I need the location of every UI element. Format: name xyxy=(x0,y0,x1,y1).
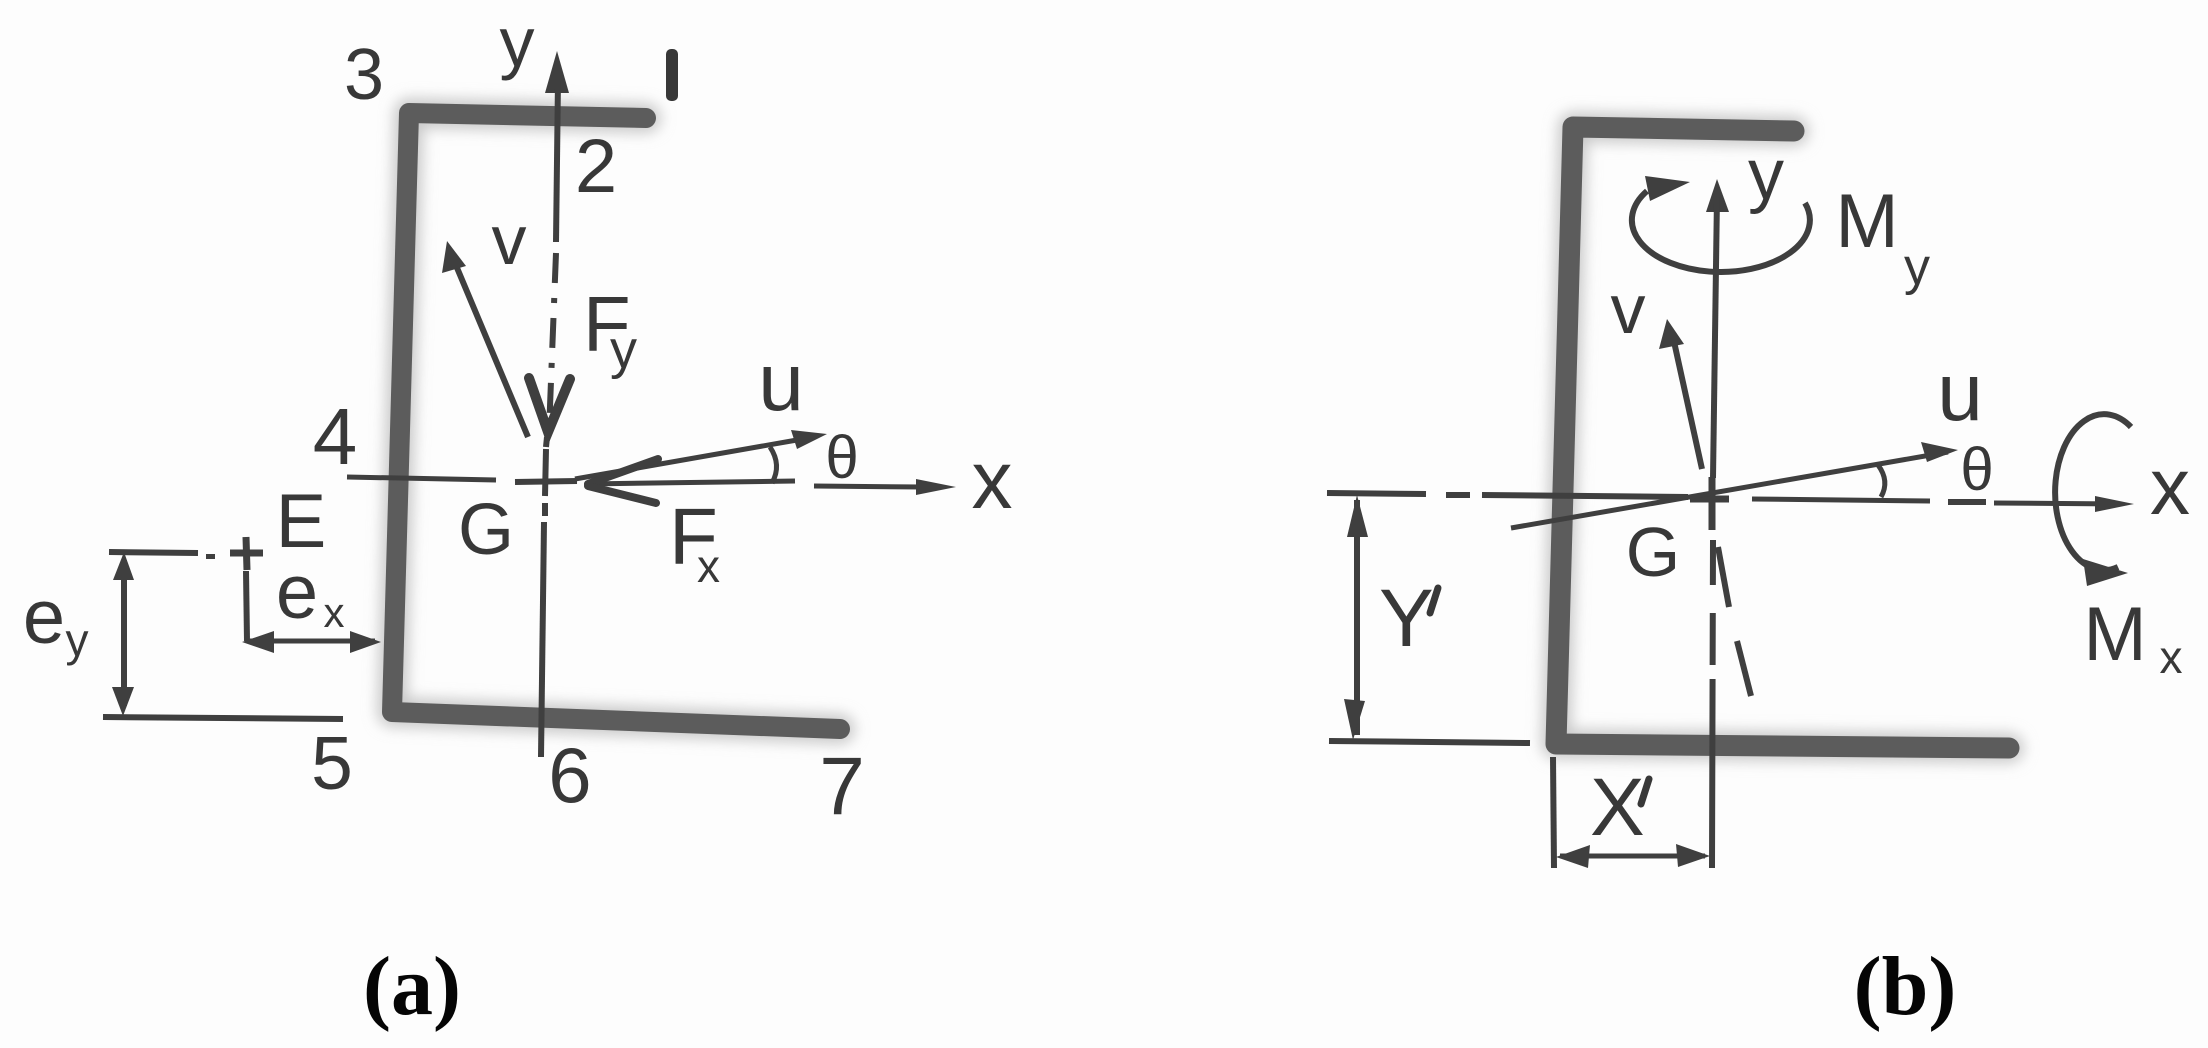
label 1 xyxy=(666,49,678,101)
u-axis arrowhead xyxy=(791,430,827,449)
svg-text:x: x xyxy=(972,435,1013,526)
svg-text:x: x xyxy=(2160,631,2183,683)
svg-text:e: e xyxy=(23,575,65,660)
svg-text:y: y xyxy=(1748,135,1784,215)
scan halo under section (a) xyxy=(392,113,840,729)
X' right arrowhead xyxy=(1676,844,1710,867)
x-axis mid segment / Fx shaft xyxy=(586,481,795,484)
Y' bottom reference line xyxy=(1329,741,1530,743)
y-axis solid shaft xyxy=(556,80,558,242)
node G crosshair xyxy=(545,449,546,496)
svg-text:θ: θ xyxy=(825,424,858,491)
section outline (a): top flange, web, bottom flange xyxy=(392,113,840,729)
ey bottom reference line xyxy=(103,717,343,719)
svg-text:3: 3 xyxy=(344,35,384,115)
ex right arrowhead xyxy=(350,631,381,653)
section outline (b): top flange, web, bottom flange xyxy=(1556,127,2009,748)
ey bottom arrowhead xyxy=(112,687,134,716)
X' dimension line xyxy=(1560,854,1705,859)
svg-text:θ: θ xyxy=(1960,436,1993,503)
svg-text:e: e xyxy=(276,550,318,635)
u-axis arrowhead xyxy=(1921,442,1958,462)
x-axis arrowhead xyxy=(2095,496,2134,512)
svg-text:y: y xyxy=(500,3,535,81)
X' left arrowhead xyxy=(1556,845,1590,868)
svg-text:y: y xyxy=(1904,238,1930,296)
moment My arrowhead xyxy=(1645,176,1690,201)
svg-text:v: v xyxy=(1611,270,1646,348)
angle theta arc xyxy=(770,447,777,483)
moment My ellipse arc xyxy=(1632,191,1810,272)
y-axis arrowhead xyxy=(1706,179,1729,212)
X' left boundary line xyxy=(1553,757,1554,868)
svg-text:Y: Y xyxy=(1379,573,1434,664)
ex leader line below E xyxy=(246,571,247,641)
svg-text:2: 2 xyxy=(575,124,617,209)
scan halo under section (b) xyxy=(1556,127,2009,748)
Y' top arrowhead xyxy=(1347,495,1368,537)
moment Mx arc xyxy=(2055,414,2131,570)
svg-text:G: G xyxy=(458,490,514,570)
y-axis dash-dot segment (Fy shaft) xyxy=(549,253,556,432)
force Fy arrowhead xyxy=(529,378,570,432)
ey top tick line xyxy=(109,552,198,553)
svg-text:5: 5 xyxy=(311,721,353,805)
svg-text:M: M xyxy=(1835,179,1898,264)
svg-text:x: x xyxy=(324,589,345,636)
u-axis shaft xyxy=(575,440,797,479)
svg-text:x: x xyxy=(697,540,720,592)
u-axis line through G xyxy=(1511,452,1948,528)
x-axis arrowhead xyxy=(916,479,956,495)
dot between tick and E xyxy=(206,554,215,559)
Y' bottom arrowhead xyxy=(1344,699,1365,740)
ex dimension line xyxy=(250,639,375,644)
svg-text:(b): (b) xyxy=(1854,940,1957,1033)
x-axis dash-dot line xyxy=(1327,493,1426,494)
v-axis arrowhead xyxy=(1659,319,1684,349)
y-axis shaft xyxy=(1713,196,1717,478)
x-axis left segment xyxy=(347,477,496,480)
v-axis dashed extension below G xyxy=(1718,547,1729,607)
svg-text:u: u xyxy=(1937,347,1983,438)
y-axis dashes below G xyxy=(1712,540,1713,868)
svg-text:G: G xyxy=(1626,513,1680,591)
svg-text:X: X xyxy=(1590,762,1645,853)
force Fx arrowhead barbs xyxy=(588,459,658,484)
node G crosshair xyxy=(1709,477,1716,530)
svg-text:x: x xyxy=(2150,442,2190,531)
moment Mx arrowhead xyxy=(2083,559,2128,586)
angle theta arc xyxy=(1878,465,1885,497)
ey dimension line xyxy=(121,560,127,706)
v-axis arrowhead xyxy=(442,241,466,273)
svg-text:M: M xyxy=(2083,592,2146,677)
ey top arrowhead xyxy=(113,552,134,580)
Y' top tick is x-axis first dash; Y' dimension line xyxy=(1354,500,1360,735)
point E cross xyxy=(230,550,263,557)
svg-text:y: y xyxy=(610,320,637,380)
y-axis arrowhead xyxy=(545,51,569,93)
svg-text:4: 4 xyxy=(313,392,358,481)
v-axis arrow shaft xyxy=(1673,337,1702,469)
y-axis below G xyxy=(542,503,548,516)
svg-text:u: u xyxy=(758,337,804,428)
ex left arrowhead xyxy=(242,631,274,653)
x-axis right segment xyxy=(814,486,922,487)
v-axis arrow shaft xyxy=(455,263,528,437)
svg-text:v: v xyxy=(492,201,527,279)
svg-text:7: 7 xyxy=(819,741,865,832)
svg-text:y: y xyxy=(66,614,89,666)
svg-text:6: 6 xyxy=(548,731,591,819)
svg-text:(a): (a) xyxy=(363,940,461,1033)
